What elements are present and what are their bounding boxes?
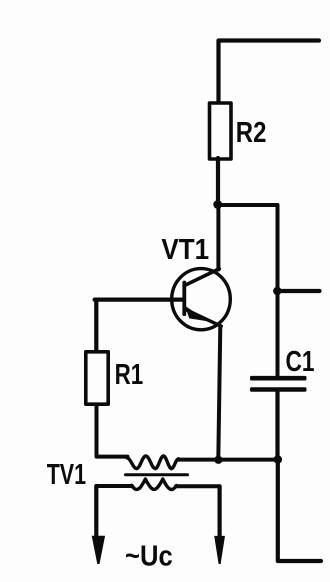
svg-text:TV1: TV1 [47, 459, 86, 491]
svg-text:VT1: VT1 [161, 234, 209, 266]
svg-text:~Uc: ~Uc [125, 541, 173, 573]
svg-text:R2: R2 [236, 117, 267, 149]
svg-text:R1: R1 [115, 359, 144, 391]
svg-text:C1: C1 [286, 346, 315, 378]
